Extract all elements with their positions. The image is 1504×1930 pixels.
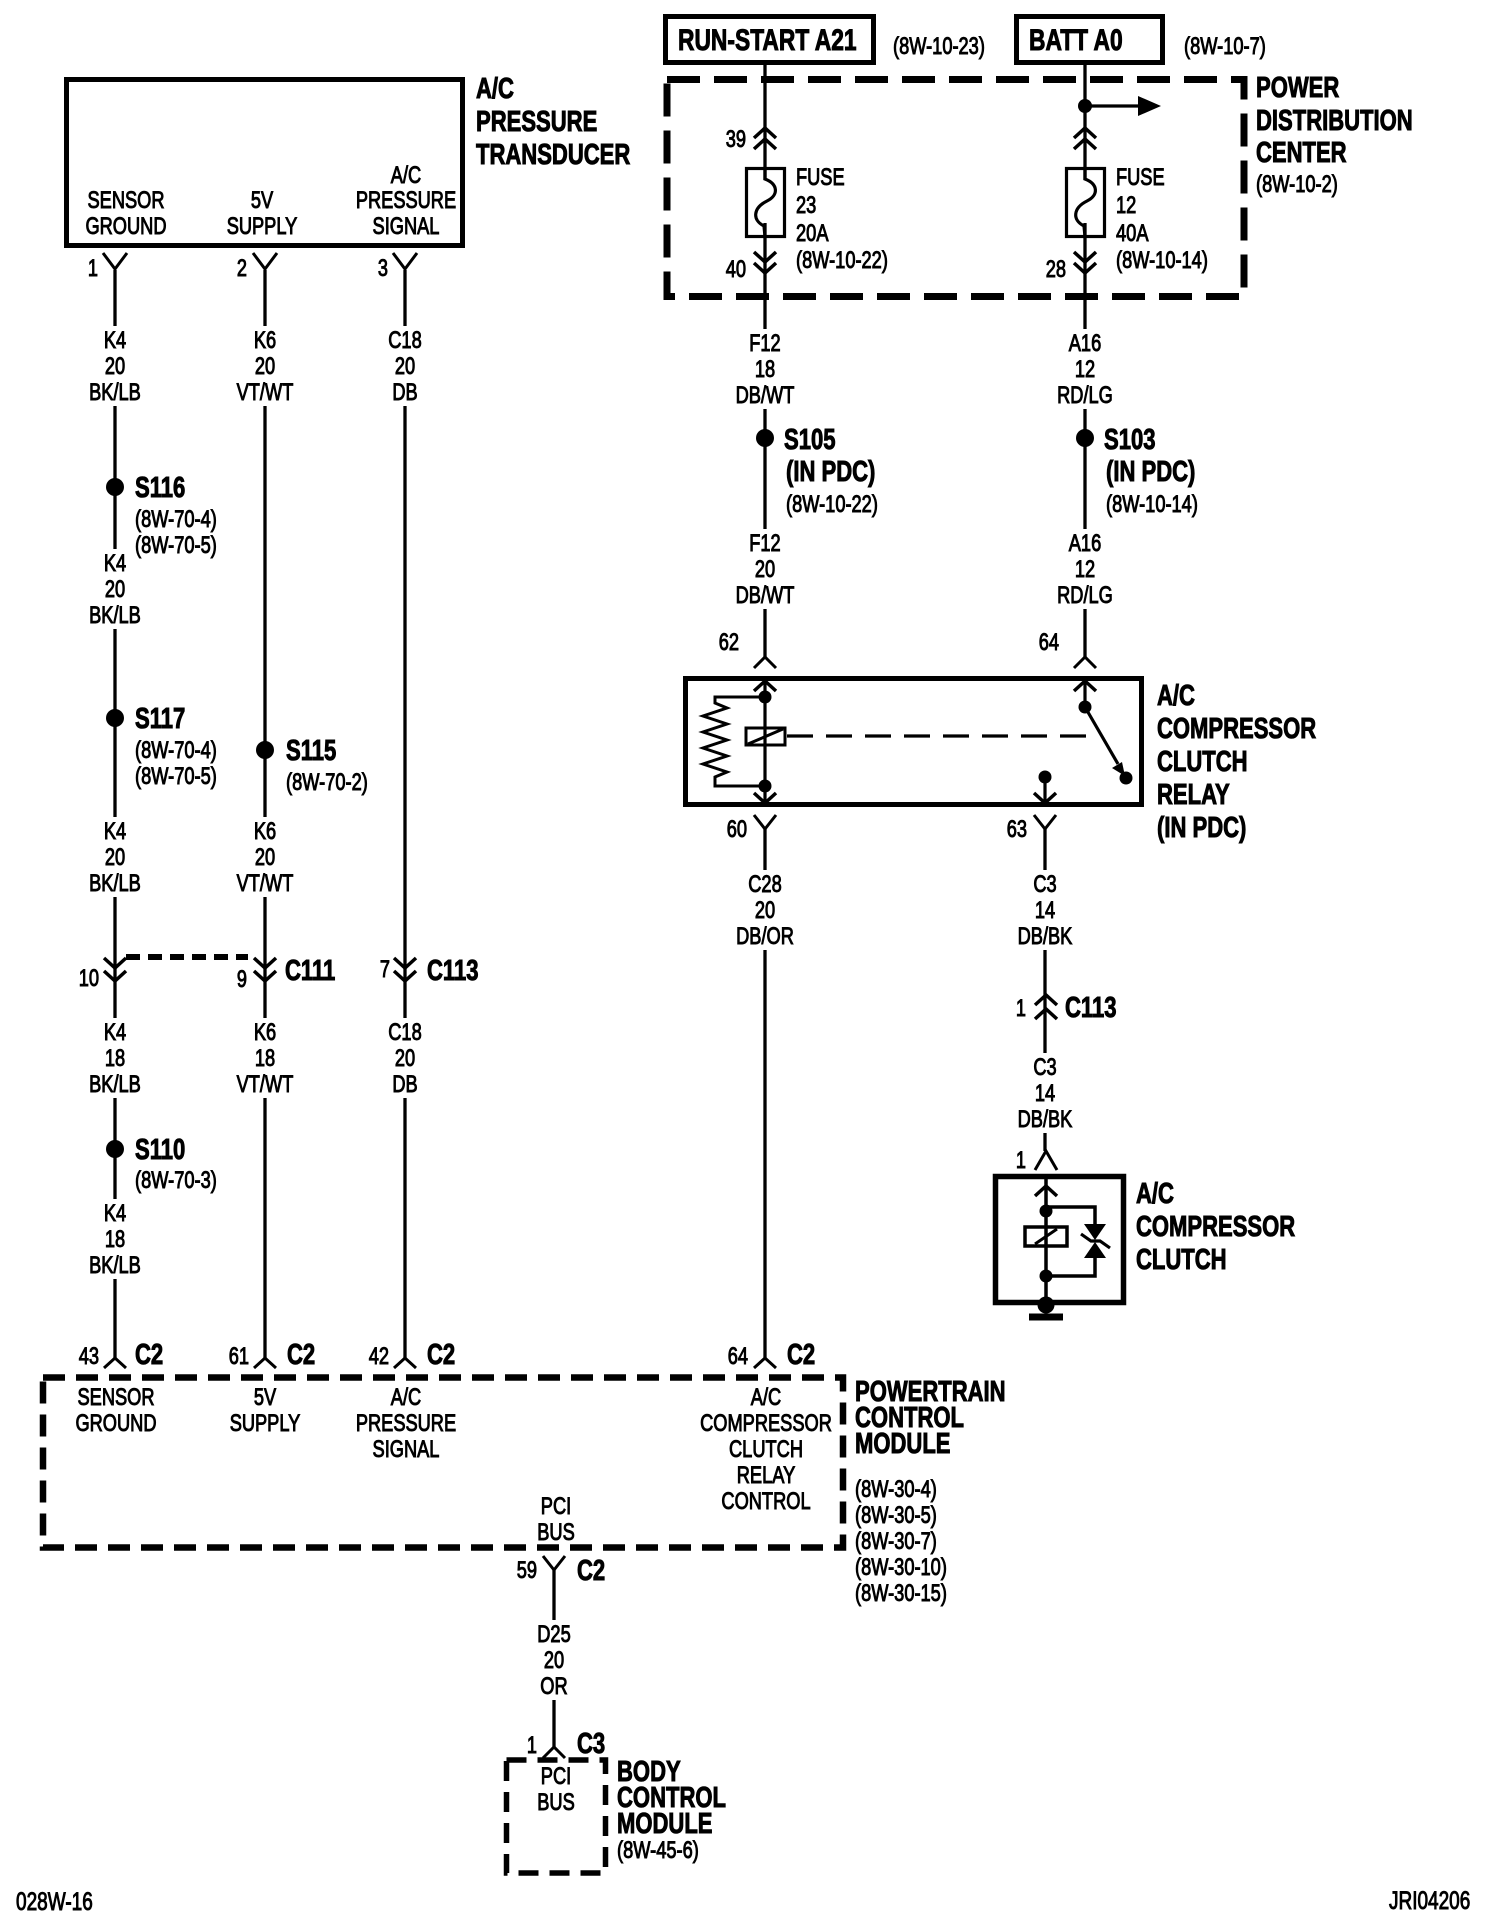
relay switch contact node (pin63) — [1120, 772, 1133, 785]
svg-text:20: 20 — [395, 1045, 415, 1072]
pin number 59 — [517, 1557, 537, 1584]
svg-text:028W-16: 028W-16 — [16, 1888, 93, 1916]
clutch coil — [1025, 1227, 1067, 1246]
svg-text:(8W-30-7): (8W-30-7) — [855, 1528, 937, 1555]
wire label K4 20 BK/LB (upper) — [79, 326, 151, 406]
svg-text:VT/WT: VT/WT — [237, 379, 294, 406]
svg-text:62: 62 — [719, 629, 739, 656]
svg-text:20: 20 — [544, 1647, 564, 1674]
svg-text:A/C: A/C — [1157, 680, 1195, 712]
label S117 (8W-70-4)(8W-70-5) — [135, 703, 217, 790]
wire label C18 20 DB (below C113) — [369, 1018, 441, 1098]
svg-text:DB: DB — [392, 1071, 417, 1098]
svg-text:43: 43 — [79, 1343, 99, 1370]
splice S105 — [756, 429, 774, 447]
label S105 (IN PDC) (8W-10-22) — [784, 424, 878, 518]
svg-text:S116: S116 — [135, 472, 185, 504]
label BATT A0 — [1029, 24, 1123, 57]
power distribution center box (dashed) — [667, 80, 1244, 297]
svg-text:DB/WT: DB/WT — [736, 382, 795, 409]
svg-text:18: 18 — [105, 1045, 125, 1072]
svg-text:K6: K6 — [254, 327, 276, 354]
clutch internal wire — [1044, 1177, 1048, 1303]
svg-text:S117: S117 — [135, 703, 185, 735]
svg-text:JRI04206: JRI04206 — [1389, 1887, 1470, 1915]
label A/C COMPRESSOR CLUTCH — [1136, 1178, 1295, 1276]
svg-text:(8W-10-2): (8W-10-2) — [1256, 171, 1338, 198]
svg-text:28: 28 — [1046, 256, 1066, 283]
svg-text:DB/BK: DB/BK — [1018, 1106, 1073, 1133]
svg-text:F12: F12 — [749, 530, 780, 557]
svg-text:C2: C2 — [787, 1339, 815, 1371]
wire C3 14 DB/BK clutch feed (relay pin 63 to clutch pin 1) — [1043, 829, 1046, 1151]
label 5V SUPPLY (transducer) — [227, 187, 298, 240]
svg-text:C18: C18 — [388, 1019, 422, 1046]
PCM pin 43 connector — [104, 1358, 126, 1368]
connector C111 pin 9 chevrons — [254, 958, 276, 981]
pin number 10 — [79, 965, 99, 992]
svg-text:(8W-45-6): (8W-45-6) — [617, 1837, 699, 1864]
svg-text:12: 12 — [1075, 356, 1095, 383]
wire C18 20 DB A/C pressure signal (pin3 to PCM pin42) — [403, 270, 406, 1358]
wire label K4 18 BK/LB (below C111) — [79, 1018, 151, 1098]
svg-text:RELAY: RELAY — [1157, 779, 1230, 811]
svg-text:14: 14 — [1035, 897, 1055, 924]
svg-text:40: 40 — [726, 256, 746, 283]
svg-text:BK/LB: BK/LB — [89, 1071, 141, 1098]
A/C compressor clutch box — [996, 1177, 1124, 1303]
svg-text:(8W-10-14): (8W-10-14) — [1116, 247, 1208, 274]
svg-text:C113: C113 — [427, 955, 479, 987]
svg-text:18: 18 — [105, 1226, 125, 1253]
svg-text:(8W-70-4): (8W-70-4) — [135, 506, 217, 533]
svg-text:63: 63 — [1007, 816, 1027, 843]
pin number 63 — [1007, 816, 1027, 843]
fuse 12 40A — [1067, 168, 1105, 237]
svg-text:SUPPLY: SUPPLY — [230, 1410, 301, 1437]
svg-text:CENTER: CENTER — [1256, 137, 1347, 169]
svg-text:(8W-10-14): (8W-10-14) — [1106, 491, 1198, 518]
pin number 28 — [1046, 256, 1066, 283]
PCM pin 42 connector — [394, 1358, 416, 1368]
svg-text:PRESSURE: PRESSURE — [356, 187, 456, 214]
node junction at BATT feed — [1078, 99, 1092, 113]
wire K4 20 BK/LB sensor ground (pin1 to PCM pin43) — [113, 270, 116, 1358]
svg-text:DB/BK: DB/BK — [1018, 923, 1073, 950]
svg-text:CLUTCH: CLUTCH — [729, 1436, 803, 1463]
relay actuation link (dashed) — [787, 734, 1098, 737]
svg-text:C18: C18 — [388, 327, 422, 354]
svg-text:(8W-70-3): (8W-70-3) — [135, 1167, 217, 1194]
relay pin63 internal node — [1039, 771, 1052, 784]
wire label A16 12 RD/LG (upper) — [1049, 329, 1121, 409]
BATT A0 feed box — [1017, 17, 1163, 63]
splice S115 — [256, 741, 274, 759]
svg-text:MODULE: MODULE — [855, 1428, 951, 1460]
pin number 60 — [727, 816, 747, 843]
svg-text:20: 20 — [105, 576, 125, 603]
relay pin 63 connector — [1034, 793, 1056, 829]
arrow to other circuits from BATT feed — [1085, 96, 1161, 116]
svg-text:DB/WT: DB/WT — [736, 582, 795, 609]
svg-text:BK/LB: BK/LB — [89, 870, 141, 897]
relay switch blade (arrow) — [1085, 707, 1125, 776]
svg-text:20: 20 — [755, 556, 775, 583]
svg-text:SIGNAL: SIGNAL — [373, 213, 440, 240]
pin number 40 — [726, 256, 746, 283]
svg-text:39: 39 — [726, 126, 746, 153]
svg-text:DB: DB — [392, 379, 417, 406]
svg-text:COMPRESSOR: COMPRESSOR — [700, 1410, 832, 1437]
label C2 (pin 61) — [287, 1339, 315, 1371]
zener diode (clutch suppression) — [1081, 1224, 1110, 1258]
svg-text:D25: D25 — [537, 1621, 571, 1648]
pin number 43 — [79, 1343, 99, 1370]
connector C113 pin 1 chevrons (clutch feed, up) — [1035, 995, 1057, 1019]
svg-text:12: 12 — [1116, 192, 1136, 219]
wire C28 20 DB/OR relay control (relay pin 60 to PCM pin 64) — [763, 829, 766, 1358]
svg-text:(8W-70-2): (8W-70-2) — [286, 769, 368, 796]
svg-text:SUPPLY: SUPPLY — [227, 213, 298, 240]
svg-text:A/C: A/C — [751, 1384, 781, 1411]
svg-text:5V: 5V — [254, 1384, 276, 1411]
svg-text:1: 1 — [88, 255, 98, 282]
wire label D25 20 OR — [518, 1620, 590, 1700]
pin number 7 — [380, 956, 390, 983]
PCM pin 64 connector — [754, 1358, 776, 1368]
svg-text:2: 2 — [237, 255, 247, 282]
svg-text:C28: C28 — [748, 871, 782, 898]
splice S117 — [106, 709, 124, 727]
PCM pin 61 connector — [254, 1358, 276, 1368]
pin number 42 — [369, 1343, 389, 1370]
connector chevrons pin 39 (in-line, up) — [754, 128, 776, 149]
svg-text:A16: A16 — [1069, 530, 1102, 557]
svg-text:10: 10 — [79, 965, 99, 992]
wire D25 20 OR PCI bus (PCM pin 59 to BCM pin 1) — [552, 1570, 555, 1747]
svg-text:MODULE: MODULE — [617, 1808, 713, 1840]
svg-text:K4: K4 — [104, 818, 126, 845]
label SENSOR GROUND (transducer) — [85, 187, 166, 240]
svg-text:18: 18 — [755, 356, 775, 383]
svg-text:BK/LB: BK/LB — [89, 602, 141, 629]
wire jumper between C111 pin10 and pin9 (dashed) — [126, 954, 248, 960]
label A/C PRESSURE TRANSDUCER — [476, 73, 630, 171]
label C111 — [285, 955, 335, 987]
wire label C18 20 DB (upper) — [369, 326, 441, 406]
clutch coil bottom junction — [1040, 1270, 1053, 1283]
svg-text:5V: 5V — [251, 187, 273, 214]
svg-text:1: 1 — [1016, 995, 1026, 1022]
wire A16 batt feed (BATT box to relay pin 64) — [1083, 65, 1086, 657]
svg-text:(8W-30-15): (8W-30-15) — [855, 1580, 947, 1607]
svg-text:18: 18 — [255, 1045, 275, 1072]
label A/C PRESSURE SIGNAL (transducer) — [356, 162, 456, 240]
svg-text:12: 12 — [1075, 556, 1095, 583]
label C113 (left) — [427, 955, 479, 987]
svg-text:C3: C3 — [1033, 1054, 1056, 1081]
pin number 39 — [726, 126, 746, 153]
svg-text:20: 20 — [755, 897, 775, 924]
label PCI BUS (BCM) — [537, 1763, 575, 1816]
svg-text:OR: OR — [540, 1673, 567, 1700]
relay switch pivot node — [1079, 701, 1092, 714]
wire label C3 14 DB/BK (upper) — [1009, 870, 1081, 950]
resistor (relay coil suppression) — [703, 697, 765, 786]
wire label K4 20 BK/LB (below S117) — [79, 817, 151, 897]
svg-text:C2: C2 — [577, 1555, 605, 1587]
connector C111 pin 10 chevrons — [104, 958, 126, 981]
pin 3 connector at transducer — [393, 253, 417, 269]
label FUSE 12 40A (8W-10-14) — [1116, 164, 1208, 274]
svg-text:POWER: POWER — [1256, 72, 1339, 104]
clutch suppression diode branch — [1046, 1207, 1095, 1276]
svg-text:F12: F12 — [749, 330, 780, 357]
svg-text:K4: K4 — [104, 1200, 126, 1227]
label (8W-10-7) — [1184, 33, 1266, 60]
wire label K4 20 BK/LB (below S116) — [79, 549, 151, 629]
splice S116 — [106, 478, 124, 496]
svg-text:SENSOR: SENSOR — [78, 1384, 155, 1411]
svg-text:FUSE: FUSE — [1116, 164, 1165, 191]
label 028W-16 — [16, 1888, 93, 1916]
svg-text:20: 20 — [255, 353, 275, 380]
pin 2 connector at transducer — [253, 253, 277, 269]
svg-text:(8W-10-22): (8W-10-22) — [786, 491, 878, 518]
connector chevrons pin 28-top (in-line, up) — [1074, 128, 1096, 149]
svg-text:A/C: A/C — [391, 162, 421, 189]
svg-text:BK/LB: BK/LB — [89, 1252, 141, 1279]
pin number 62 — [719, 629, 739, 656]
svg-text:K4: K4 — [104, 1019, 126, 1046]
label JRI04206 — [1389, 1887, 1470, 1915]
svg-text:A/C: A/C — [1136, 1178, 1174, 1210]
label POWER DISTRIBUTION CENTER — [1256, 72, 1413, 198]
svg-text:COMPRESSOR: COMPRESSOR — [1136, 1211, 1295, 1243]
wire label C28 20 DB/OR — [729, 870, 801, 950]
wire label K4 18 BK/LB (below S110) — [79, 1199, 151, 1279]
label A/C PRESSURE SIGNAL (PCM) — [356, 1384, 456, 1463]
pin number 61 — [229, 1343, 249, 1370]
svg-text:COMPRESSOR: COMPRESSOR — [1157, 713, 1316, 745]
pin number 3 (transducer) — [378, 255, 388, 282]
RUN-START A21 feed box — [666, 17, 874, 63]
svg-text:BK/LB: BK/LB — [89, 379, 141, 406]
svg-text:S110: S110 — [135, 1134, 185, 1166]
svg-text:3: 3 — [378, 255, 388, 282]
svg-text:RUN-START A21: RUN-START A21 — [678, 24, 857, 57]
svg-text:61: 61 — [229, 1343, 249, 1370]
label A/C COMPRESSOR CLUTCH RELAY CONTROL (PCM) — [700, 1384, 832, 1515]
svg-text:CLUTCH: CLUTCH — [1136, 1244, 1227, 1276]
label S110 (8W-70-3) — [135, 1134, 217, 1194]
clutch ground node — [1038, 1297, 1055, 1314]
svg-text:C2: C2 — [135, 1339, 163, 1371]
pin number 2 (transducer) — [237, 255, 247, 282]
pin number 64 (relay) — [1039, 629, 1059, 656]
relay pin62 internal wire — [763, 678, 766, 806]
label FUSE 23 20A (8W-10-22) — [796, 164, 888, 274]
connector C113 pin 7 chevrons — [394, 958, 416, 981]
svg-text:CLUTCH: CLUTCH — [1157, 746, 1248, 778]
svg-text:S115: S115 — [286, 735, 336, 767]
wire label K6 20 VT/WT (below S115) — [229, 817, 301, 897]
pin number 64 (PCM) — [728, 1343, 748, 1370]
label S103 (IN PDC) (8W-10-14) — [1104, 424, 1198, 518]
svg-text:PRESSURE: PRESSURE — [476, 106, 597, 138]
svg-text:(8W-30-5): (8W-30-5) — [855, 1502, 937, 1529]
svg-text:RD/LG: RD/LG — [1057, 582, 1113, 609]
svg-text:1: 1 — [1016, 1147, 1026, 1174]
svg-text:SIGNAL: SIGNAL — [373, 1436, 440, 1463]
svg-text:PCI: PCI — [541, 1763, 571, 1790]
svg-text:40A: 40A — [1116, 220, 1149, 247]
svg-text:60: 60 — [727, 816, 747, 843]
svg-text:(8W-30-10): (8W-30-10) — [855, 1554, 947, 1581]
svg-text:14: 14 — [1035, 1080, 1055, 1107]
svg-text:PRESSURE: PRESSURE — [356, 1410, 456, 1437]
label A/C COMPRESSOR CLUTCH RELAY (IN PDC) — [1157, 680, 1316, 844]
svg-text:DB/OR: DB/OR — [736, 923, 794, 950]
svg-text:GROUND: GROUND — [85, 213, 166, 240]
svg-text:FUSE: FUSE — [796, 164, 845, 191]
svg-text:K6: K6 — [254, 1019, 276, 1046]
body control module box (dashed) — [507, 1760, 606, 1873]
svg-text:PCI: PCI — [541, 1493, 571, 1520]
svg-text:1: 1 — [527, 1732, 537, 1759]
wire label F12 20 DB/WT — [729, 529, 801, 609]
svg-text:20: 20 — [105, 353, 125, 380]
label BODY CONTROL MODULE — [617, 1756, 726, 1864]
label POWERTRAIN CONTROL MODULE — [855, 1376, 1006, 1607]
wire label F12 18 DB/WT — [729, 329, 801, 409]
pin number 1 (transducer) — [88, 255, 98, 282]
wire label K6 20 VT/WT (upper) — [229, 326, 301, 406]
fuse 23 20A — [747, 168, 785, 237]
relay coil bottom junction — [759, 780, 772, 793]
svg-text:C3: C3 — [577, 1728, 605, 1760]
svg-text:(8W-70-5): (8W-70-5) — [135, 532, 217, 559]
wire F12 run-start feed (RUN-START box to relay pin 62) — [763, 65, 766, 657]
svg-text:C2: C2 — [287, 1339, 315, 1371]
relay pin 64 connector — [1074, 657, 1096, 691]
BCM pin 1 connector — [543, 1747, 565, 1758]
svg-text:S105: S105 — [784, 424, 836, 456]
svg-text:(8W-70-4): (8W-70-4) — [135, 737, 217, 764]
relay pin 60 connector — [754, 793, 776, 829]
PCM pin 59 connector — [543, 1556, 565, 1570]
svg-text:SENSOR: SENSOR — [88, 187, 165, 214]
label C2 (pin 43) — [135, 1339, 163, 1371]
label S116 (8W-70-4)(8W-70-5) — [135, 472, 217, 559]
svg-text:20: 20 — [395, 353, 415, 380]
svg-text:K6: K6 — [254, 818, 276, 845]
pin number 1 (C113) — [1016, 995, 1026, 1022]
svg-text:42: 42 — [369, 1343, 389, 1370]
svg-text:VT/WT: VT/WT — [237, 870, 294, 897]
svg-text:A16: A16 — [1069, 330, 1102, 357]
svg-text:9: 9 — [237, 966, 247, 993]
svg-text:RD/LG: RD/LG — [1057, 382, 1113, 409]
pin 1 connector at transducer — [103, 253, 127, 269]
ground symbol below clutch — [1029, 1314, 1063, 1321]
A/C pressure transducer box — [67, 80, 463, 246]
label PCI BUS (PCM) — [537, 1493, 575, 1546]
powertrain control module box (dashed) — [43, 1378, 843, 1548]
pin number 1 (clutch) — [1016, 1147, 1026, 1174]
connector chevrons pin 28 (in-line, down) — [1074, 252, 1096, 273]
svg-text:(8W-10-7): (8W-10-7) — [1184, 33, 1266, 60]
svg-text:BUS: BUS — [537, 1789, 575, 1816]
A/C compressor clutch relay box — [686, 679, 1142, 805]
svg-text:(IN PDC): (IN PDC) — [786, 456, 875, 488]
relay pin64 internal wire — [1083, 678, 1086, 707]
wire label A16 12 RD/LG (lower) — [1049, 529, 1121, 609]
connector chevrons pin 40 (in-line, down) — [754, 252, 776, 273]
svg-text:S103: S103 — [1104, 424, 1156, 456]
svg-text:20: 20 — [105, 844, 125, 871]
label RUN-START A21 — [678, 24, 857, 57]
svg-text:C111: C111 — [285, 955, 335, 987]
svg-text:A/C: A/C — [476, 73, 514, 105]
svg-text:A/C: A/C — [391, 1384, 421, 1411]
relay coil — [746, 728, 785, 745]
svg-text:59: 59 — [517, 1557, 537, 1584]
wire K6 20 VT/WT 5V supply (pin2 to PCM pin61) — [263, 270, 266, 1358]
svg-text:64: 64 — [728, 1343, 748, 1370]
pin number 9 — [237, 966, 247, 993]
svg-text:TRANSDUCER: TRANSDUCER — [476, 139, 630, 171]
wire label K6 18 VT/WT (below C111) — [229, 1018, 301, 1098]
svg-text:(IN PDC): (IN PDC) — [1157, 812, 1246, 844]
svg-text:(IN PDC): (IN PDC) — [1106, 456, 1195, 488]
svg-text:20: 20 — [255, 844, 275, 871]
svg-text:CONTROL: CONTROL — [721, 1488, 810, 1515]
label SENSOR GROUND (PCM) — [75, 1384, 156, 1437]
splice S110 — [106, 1140, 124, 1158]
svg-text:23: 23 — [796, 192, 816, 219]
svg-text:7: 7 — [380, 956, 390, 983]
clutch internal chevron — [1035, 1186, 1057, 1196]
svg-text:GROUND: GROUND — [75, 1410, 156, 1437]
label C113 (right) — [1065, 992, 1117, 1024]
svg-text:(8W-70-5): (8W-70-5) — [135, 763, 217, 790]
wire label C3 14 DB/BK (lower) — [1009, 1053, 1081, 1133]
svg-text:K4: K4 — [104, 550, 126, 577]
svg-text:(8W-30-4): (8W-30-4) — [855, 1476, 937, 1503]
svg-text:VT/WT: VT/WT — [237, 1071, 294, 1098]
relay coil top junction — [759, 691, 772, 704]
label C2 (pin 64) — [787, 1339, 815, 1371]
svg-text:20A: 20A — [796, 220, 829, 247]
svg-text:BATT A0: BATT A0 — [1029, 24, 1123, 57]
svg-text:C113: C113 — [1065, 992, 1117, 1024]
svg-text:C3: C3 — [1033, 871, 1056, 898]
svg-text:DISTRIBUTION: DISTRIBUTION — [1256, 105, 1413, 137]
label C2 (pin 59) — [577, 1555, 605, 1587]
svg-text:C2: C2 — [427, 1339, 455, 1371]
relay pin 62 connector — [754, 657, 776, 691]
svg-text:(8W-10-23): (8W-10-23) — [893, 33, 985, 60]
label C2 (pin 42) — [427, 1339, 455, 1371]
label 5V SUPPLY (PCM) — [230, 1384, 301, 1437]
svg-text:64: 64 — [1039, 629, 1059, 656]
clutch coil top junction — [1040, 1205, 1053, 1218]
svg-text:K4: K4 — [104, 327, 126, 354]
label (8W-10-23) — [893, 33, 985, 60]
clutch pin 1 connector — [1035, 1151, 1057, 1170]
relay pin63 internal wire — [1043, 777, 1046, 806]
